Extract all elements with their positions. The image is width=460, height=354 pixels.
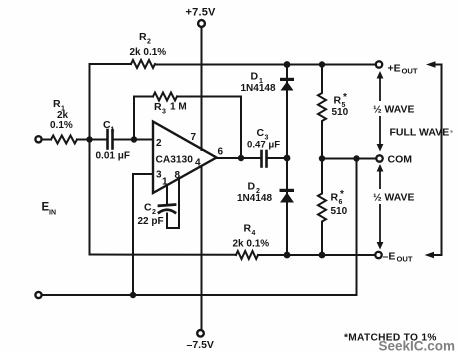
- svg-text:7: 7: [191, 132, 197, 143]
- diode D2: [280, 189, 295, 203]
- svg-text:COM: COM: [388, 154, 413, 166]
- wire C2 to pin 8: [167, 179, 179, 228]
- svg-text:C: C: [144, 202, 152, 214]
- wire D1 branch vertical: [286, 65, 288, 159]
- node R5 top rail: [319, 61, 325, 67]
- node COM ground branch: [353, 155, 359, 161]
- svg-text:OUT: OUT: [397, 255, 413, 264]
- wire node A vertical (R2/R4 branch): [90, 64, 132, 255]
- terminal Ein ground: [35, 292, 41, 298]
- svg-text:½ WAVE: ½ WAVE: [373, 193, 414, 204]
- svg-text:4: 4: [252, 230, 256, 237]
- svg-text:510: 510: [332, 107, 349, 118]
- svg-text:R: R: [244, 223, 252, 235]
- terminal Ein signal: [35, 136, 41, 142]
- svg-text:1: 1: [111, 127, 115, 134]
- svg-text:0.47 μF: 0.47 μF: [247, 140, 280, 151]
- svg-text:½ WAVE: ½ WAVE: [373, 105, 414, 116]
- wire pin 6 output to C3: [217, 157, 260, 159]
- arrow full-wave bracket: [425, 61, 442, 258]
- wire D2 branch vertical: [286, 158, 288, 255]
- svg-text:8: 8: [175, 170, 181, 181]
- svg-text:4: 4: [195, 158, 201, 169]
- svg-text:R: R: [331, 192, 339, 204]
- svg-text:D: D: [251, 71, 259, 83]
- wire C3 to node C: [268, 157, 288, 159]
- resistor R1: [51, 136, 77, 144]
- svg-text:SeekIC.com: SeekIC.com: [379, 339, 456, 354]
- svg-text:1N4148: 1N4148: [241, 83, 276, 94]
- svg-text:+7.5V: +7.5V: [186, 7, 217, 19]
- capacitor C3: [262, 151, 267, 167]
- svg-text:0.01 μF: 0.01 μF: [96, 151, 130, 162]
- terminal COM: [376, 155, 382, 161]
- svg-text:*: *: [343, 92, 347, 103]
- full wave trailing dot: [451, 131, 453, 133]
- wire pin 3 to ground rail: [133, 174, 153, 295]
- node R6 bottom: [319, 252, 326, 259]
- svg-text:IN: IN: [49, 210, 56, 217]
- svg-text:510: 510: [331, 206, 348, 217]
- svg-text:3: 3: [162, 109, 166, 116]
- svg-text:0.1%: 0.1%: [50, 120, 73, 131]
- svg-text:R: R: [139, 31, 147, 43]
- wire -Eout line with R4: [90, 254, 237, 256]
- svg-text:C: C: [257, 127, 265, 139]
- node A: [86, 136, 92, 142]
- svg-text:R: R: [154, 101, 162, 113]
- resistor R2: [131, 60, 155, 68]
- wire pin 1 to C2: [166, 185, 168, 204]
- svg-text:–7.5V: –7.5V: [187, 339, 214, 351]
- terminal -Eout: [375, 252, 381, 258]
- svg-text:R: R: [334, 95, 342, 107]
- svg-text:2: 2: [147, 39, 151, 46]
- op-amp U1 CA3130: [153, 122, 217, 194]
- node B: [131, 136, 137, 142]
- wire pin 7 +7.5V supply: [201, 27, 203, 150]
- svg-text:1 M: 1 M: [170, 102, 187, 113]
- wire R2 to +Eout rail: [155, 64, 376, 66]
- wire R1 to node A: [77, 139, 106, 141]
- svg-text:*: *: [340, 189, 344, 200]
- svg-text:2k 0.1%: 2k 0.1%: [130, 47, 167, 58]
- svg-text:D: D: [248, 181, 256, 193]
- wire R4 to -Eout terminal: [258, 254, 375, 256]
- wire node B up to R3: [134, 97, 153, 140]
- node D1 top rail: [284, 61, 291, 68]
- wire pin 4 -7.5V supply: [201, 166, 203, 329]
- node R5/R6 COM: [319, 155, 325, 161]
- svg-text:2: 2: [152, 209, 156, 216]
- node D2 bottom: [284, 252, 291, 259]
- node output pin 6: [238, 155, 244, 161]
- svg-text:+E: +E: [388, 63, 401, 75]
- terminal +Eout: [376, 61, 382, 67]
- resistor R5: [318, 65, 326, 159]
- wire input signal to R1: [42, 139, 52, 141]
- svg-text:1: 1: [162, 177, 168, 188]
- node C (C3/D1/D2): [284, 155, 291, 162]
- diode D1: [280, 78, 294, 91]
- capacitor C1: [108, 130, 113, 149]
- wire C1 to node B to op-amp pin 2: [114, 139, 154, 141]
- svg-text:FULL WAVE: FULL WAVE: [390, 127, 450, 139]
- svg-text:OUT: OUT: [402, 67, 418, 76]
- svg-text:22 pF: 22 pF: [138, 216, 164, 227]
- arrow half-wave upper: [377, 71, 384, 152]
- svg-text:–E: –E: [383, 251, 396, 263]
- svg-text:6: 6: [218, 147, 224, 158]
- svg-text:6: 6: [339, 199, 343, 206]
- resistor R4: [236, 251, 258, 259]
- svg-text:CA3130: CA3130: [156, 155, 194, 166]
- terminal -7.5V: [197, 330, 204, 337]
- resistor R3: [153, 93, 177, 101]
- node pin3 ground rail: [130, 292, 136, 298]
- svg-text:2k 0.1%: 2k 0.1%: [233, 239, 270, 250]
- wire COM line: [322, 158, 376, 160]
- arrow half-wave lower: [377, 164, 384, 250]
- svg-text:1N4148: 1N4148: [237, 193, 272, 204]
- capacitor C2: [159, 205, 175, 206]
- svg-text:2: 2: [156, 138, 162, 149]
- wire COM to ground rail: [42, 159, 357, 296]
- wire R3 to output node: [177, 97, 241, 159]
- resistor R6: [318, 159, 326, 256]
- svg-text:R: R: [53, 98, 61, 110]
- terminal +7.5V: [198, 20, 205, 27]
